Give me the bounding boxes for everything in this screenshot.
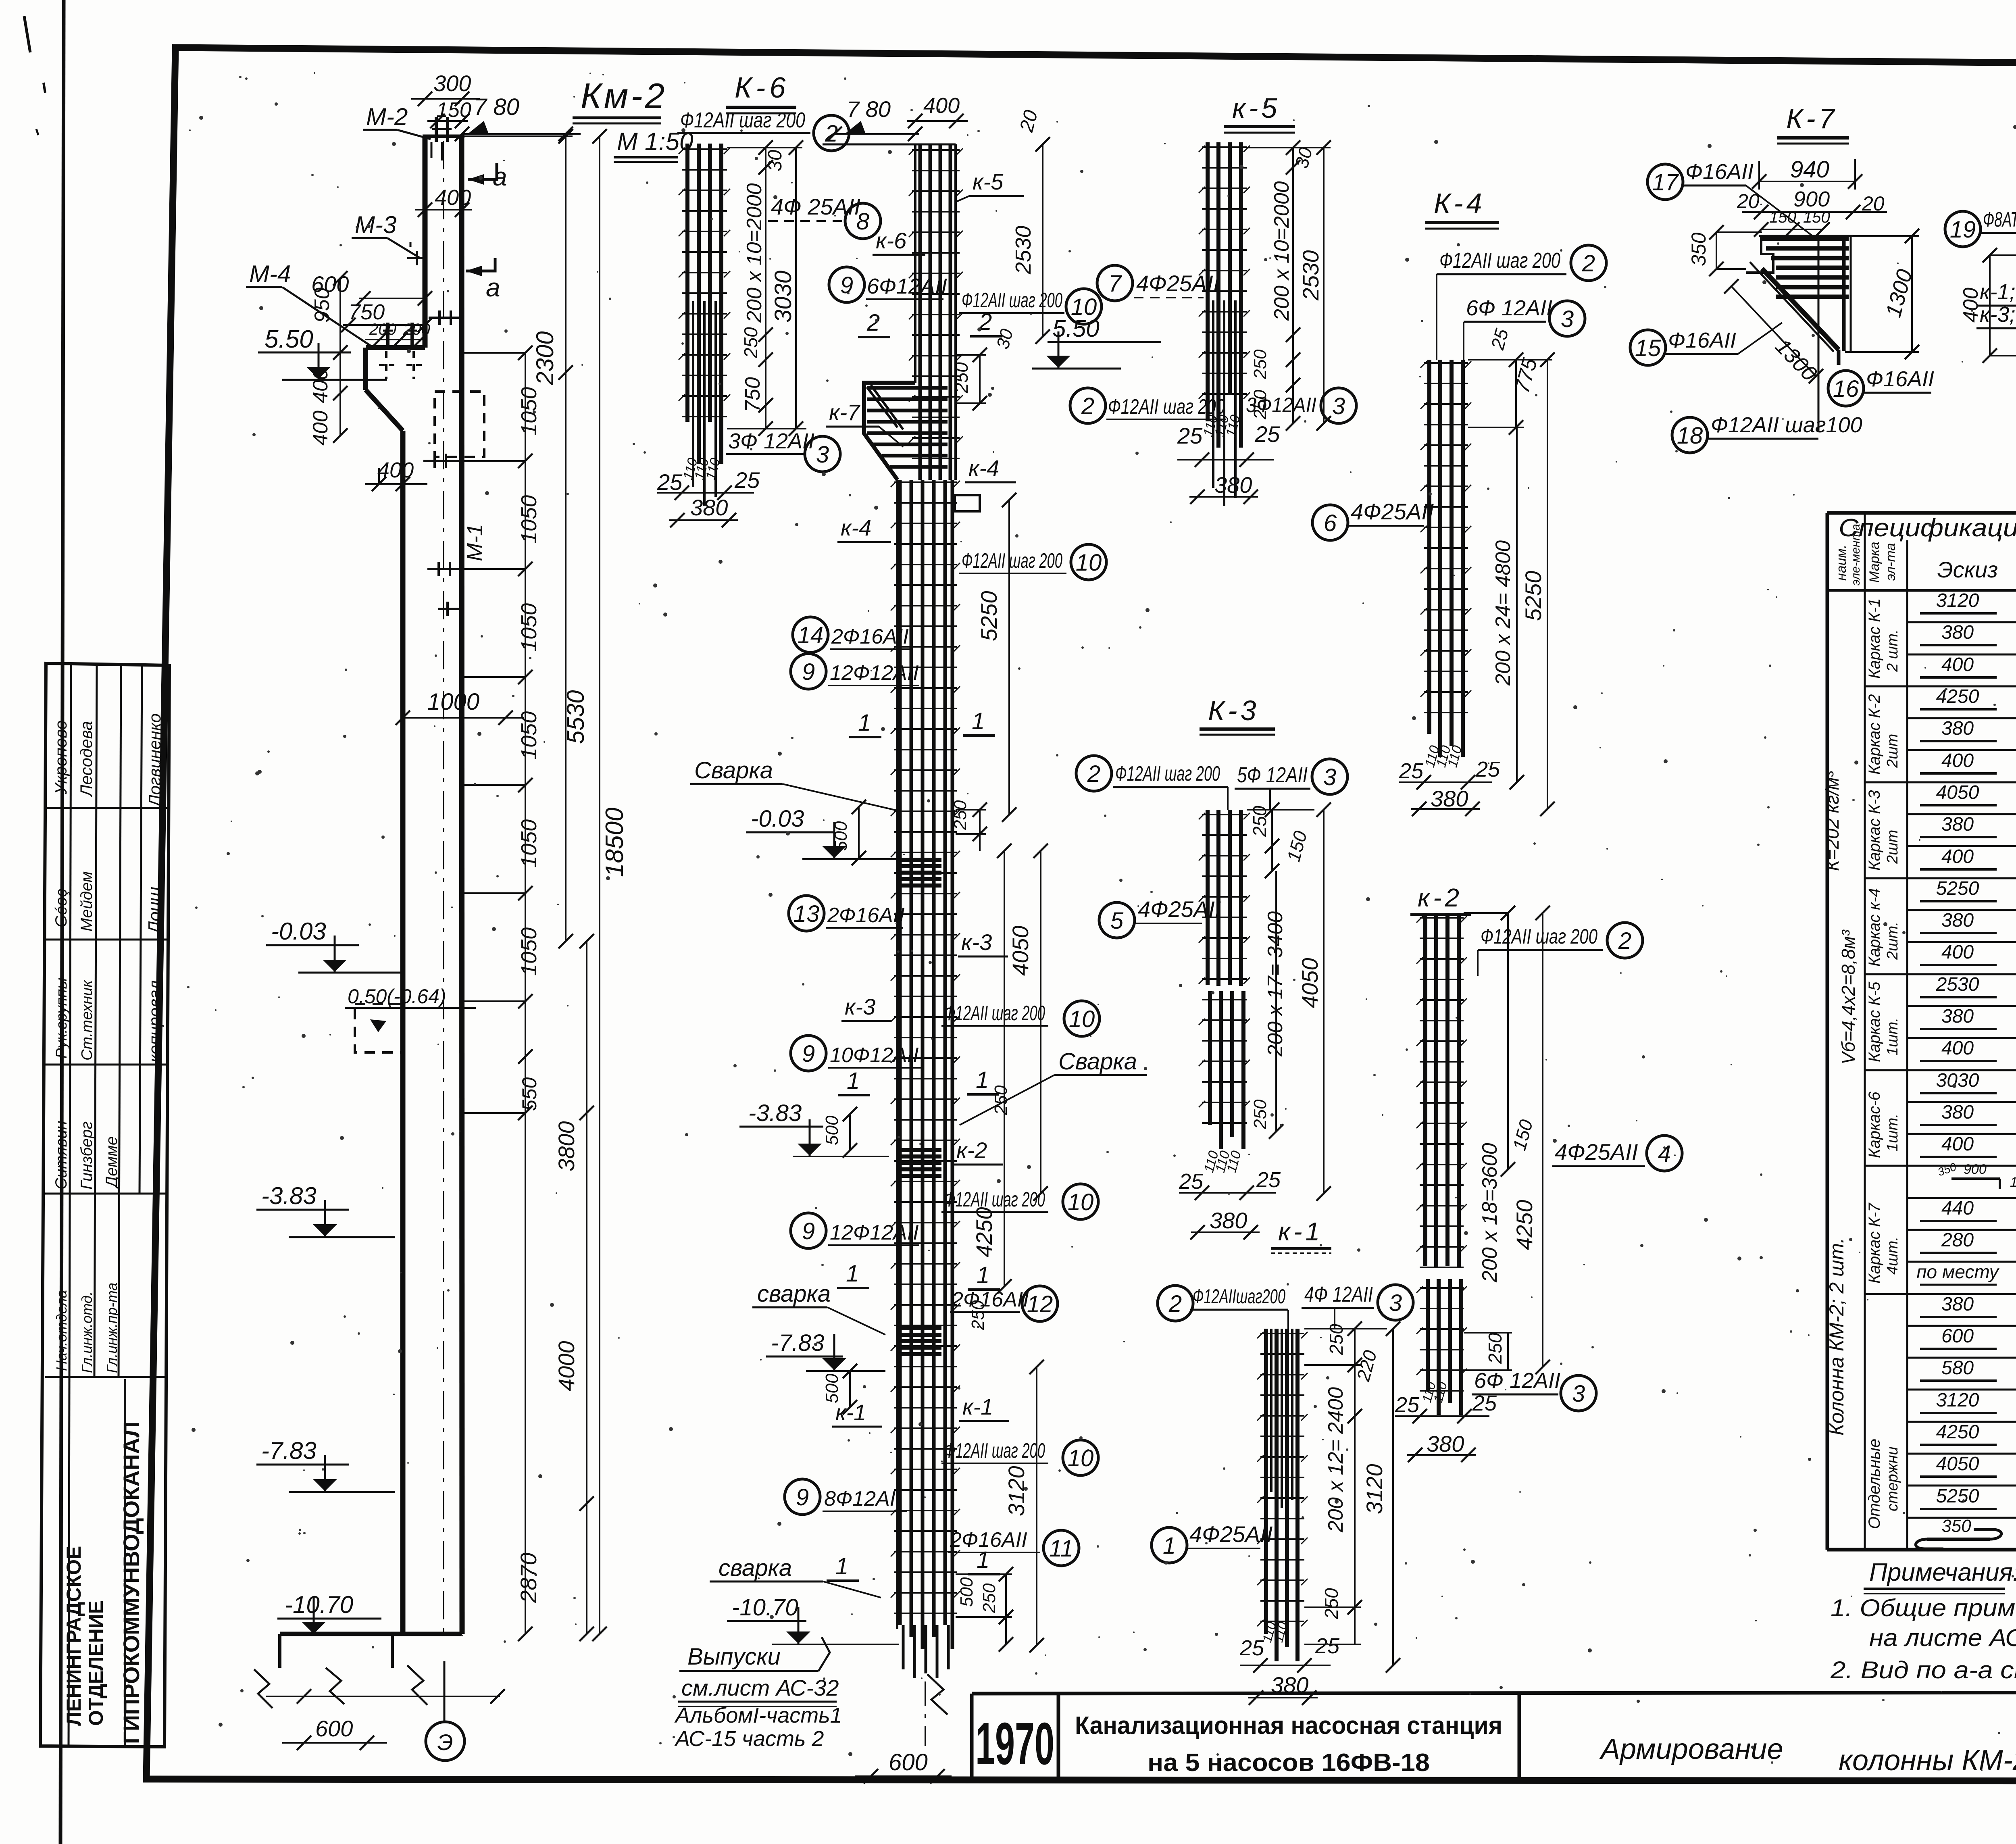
specification table bbox=[1827, 511, 2016, 515]
circle marker 8 bbox=[845, 203, 881, 239]
svg-text:25: 25 bbox=[734, 467, 760, 493]
svg-text:сварка: сварка bbox=[757, 1281, 831, 1307]
svg-text:см.лист АС-32: см.лист АС-32 bbox=[681, 1675, 839, 1700]
dimension chain 3800/4000/2870 bbox=[586, 941, 587, 1634]
svg-text:200: 200 bbox=[369, 321, 396, 338]
svg-text:Ф12АIIшаг200: Ф12АIIшаг200 bbox=[1193, 1285, 1285, 1308]
svg-text:к-6: к-6 bbox=[876, 228, 907, 253]
svg-text:380: 380 bbox=[1941, 1294, 1974, 1315]
corbel K-7 top edge bbox=[1759, 235, 1853, 237]
column lower segment bars bbox=[898, 480, 902, 1625]
column KM-2 left edge below ledge bbox=[363, 348, 368, 390]
column bottom break mark bbox=[927, 1674, 948, 1715]
svg-text:Ф12АII шаг 200: Ф12АII шаг 200 bbox=[680, 108, 805, 132]
svg-text:350: 350 bbox=[1687, 232, 1710, 266]
splice dims 500 250 second bbox=[849, 1114, 851, 1150]
svg-text:-0.03: -0.03 bbox=[271, 918, 326, 945]
svg-text:1970: 1970 bbox=[975, 1711, 1054, 1777]
svg-text:-10.70: -10.70 bbox=[732, 1594, 798, 1621]
svg-text:380: 380 bbox=[1431, 786, 1468, 811]
svg-text:7: 7 bbox=[1108, 271, 1123, 297]
dim 600 at base bbox=[282, 1742, 387, 1744]
svg-text:1шт.: 1шт. bbox=[1884, 1018, 1901, 1056]
svg-text:400: 400 bbox=[377, 458, 414, 482]
svg-text:АС-15 часть 2: АС-15 часть 2 bbox=[674, 1727, 824, 1751]
svg-text:580: 580 bbox=[1941, 1357, 1974, 1379]
svg-text:25: 25 bbox=[1177, 423, 1203, 448]
svg-text:400: 400 bbox=[923, 94, 960, 118]
svg-text:3120: 3120 bbox=[1362, 1464, 1387, 1514]
dim 4250 right bbox=[1004, 851, 1005, 1286]
cage K-4 dim 200x24 and 5250 bbox=[1516, 427, 1518, 782]
circle 9 12F12AII bbox=[791, 654, 826, 689]
svg-text:К-4: К-4 bbox=[1434, 188, 1485, 219]
svg-text:Марка: Марка bbox=[1867, 542, 1882, 583]
svg-text:500: 500 bbox=[957, 1577, 977, 1607]
svg-text:Ф12АII шаг 200: Ф12АII шаг 200 bbox=[1439, 248, 1560, 273]
svg-text:3: 3 bbox=[1572, 1381, 1585, 1407]
svg-text:колонны КМ-2: колонны КМ-2 bbox=[1839, 1744, 2016, 1777]
table row rules bbox=[1907, 621, 2016, 623]
svg-text:2шт.: 2шт. bbox=[1884, 922, 1901, 960]
cage K-3 dim 200x17 and 4050 bbox=[1275, 871, 1277, 1131]
label F8AT step 200 circle 19 bbox=[1945, 211, 1981, 247]
svg-text:5530: 5530 bbox=[562, 690, 589, 744]
dimension chain 18500 overall bbox=[599, 136, 600, 1634]
cage K-1 dim 200x12 and 3120 bbox=[1354, 1416, 1356, 1607]
svg-text:к-4: к-4 bbox=[968, 455, 999, 481]
svg-text:17: 17 bbox=[1652, 169, 1679, 196]
svg-text:a: a bbox=[493, 162, 507, 191]
dim 940 bbox=[1759, 181, 1855, 182]
section mark a-a upper bbox=[468, 163, 497, 179]
circle marker 9 and 6F12AII bbox=[829, 267, 864, 302]
column axis line bbox=[443, 141, 444, 1633]
svg-text:ОТДЕЛЕНИЕ: ОТДЕЛЕНИЕ bbox=[85, 1600, 107, 1726]
cage K-1 hoop label circle 2 bbox=[1158, 1286, 1193, 1321]
svg-text:1: 1 bbox=[846, 1261, 859, 1287]
svg-text:Ф12АII шаг 200: Ф12АII шаг 200 bbox=[1481, 925, 1597, 948]
svg-text:7 80: 7 80 bbox=[474, 94, 519, 120]
cage K-6 ties bbox=[682, 148, 727, 150]
svg-text:2шт: 2шт bbox=[1884, 734, 1901, 768]
svg-text:250: 250 bbox=[1485, 1333, 1506, 1364]
cage K-1 bars bbox=[1264, 1329, 1268, 1634]
svg-text:200 х 18=3600: 200 х 18=3600 bbox=[1478, 1143, 1502, 1283]
circle 17 F16AII bbox=[1647, 164, 1683, 200]
svg-text:6Ф 12АII: 6Ф 12АII bbox=[1466, 296, 1552, 320]
svg-text:3: 3 bbox=[1561, 306, 1574, 332]
svg-text:1: 1 bbox=[835, 1553, 848, 1579]
circle 15 F16AII bbox=[1630, 330, 1666, 365]
svg-text:10: 10 bbox=[1071, 294, 1097, 320]
circle 1 4F25AII bbox=[1152, 1527, 1187, 1563]
svg-text:Géoç: Géoç bbox=[52, 889, 70, 927]
svg-text:1: 1 bbox=[847, 1068, 860, 1094]
svg-text:2Ф16АII: 2Ф16АII bbox=[831, 625, 909, 648]
svg-text:1: 1 bbox=[977, 1262, 989, 1288]
svg-text:25: 25 bbox=[1399, 759, 1424, 783]
svg-text:150: 150 bbox=[436, 98, 471, 122]
svg-text:4050: 4050 bbox=[1297, 958, 1322, 1008]
svg-text:400: 400 bbox=[309, 368, 332, 403]
svg-text:400: 400 bbox=[1941, 942, 1974, 963]
cage K-1 splice bars bbox=[1270, 1329, 1272, 1492]
svg-text:К-3: К-3 bbox=[1208, 695, 1260, 726]
svg-text:250: 250 bbox=[1250, 1099, 1270, 1129]
svg-text:2530: 2530 bbox=[1298, 250, 1323, 301]
svg-text:250: 250 bbox=[1250, 349, 1270, 379]
svg-text:1: 1 bbox=[1163, 1533, 1176, 1559]
svg-text:Vб=4,4х2=8,8м³: Vб=4,4х2=8,8м³ bbox=[1838, 929, 1859, 1065]
svg-text:380: 380 bbox=[1941, 622, 1974, 643]
cage K-5 dim chain inner bbox=[1292, 148, 1294, 423]
svg-text:2шт: 2шт bbox=[1884, 830, 1901, 864]
svg-text:400: 400 bbox=[1941, 846, 1974, 867]
svg-text:15: 15 bbox=[1635, 335, 1661, 361]
svg-text:400: 400 bbox=[309, 410, 332, 446]
svg-text:М-3: М-3 bbox=[355, 211, 396, 238]
column bottom released bars bbox=[902, 1625, 905, 1669]
svg-text:Каркас К-1: Каркас К-1 bbox=[1866, 598, 1883, 679]
cage K-3 bars lower bbox=[1208, 991, 1212, 1125]
svg-text:4050: 4050 bbox=[1008, 925, 1033, 976]
cage K-3 bars upper bbox=[1206, 810, 1210, 985]
cage K-4 bars bbox=[1427, 360, 1431, 734]
svg-text:1050: 1050 bbox=[517, 603, 541, 652]
dim 4050 right bbox=[1040, 851, 1041, 1194]
svg-text:200 х 12= 2400: 200 х 12= 2400 bbox=[1324, 1387, 1347, 1533]
svg-text:500: 500 bbox=[822, 1115, 842, 1145]
svg-text:440: 440 bbox=[1941, 1198, 1974, 1219]
svg-text:6: 6 bbox=[1324, 510, 1337, 536]
svg-text:ЛЕНИНГРАДСКОЕ: ЛЕНИНГРАДСКОЕ bbox=[62, 1546, 85, 1726]
corbel K-7 left steps bbox=[1746, 236, 1773, 273]
svg-text:25: 25 bbox=[1475, 757, 1500, 781]
svg-text:3120: 3120 bbox=[1936, 590, 1979, 611]
column KM-2 right edge bbox=[462, 136, 462, 1634]
svg-text:М-2: М-2 bbox=[366, 103, 408, 130]
svg-text:3: 3 bbox=[816, 442, 829, 468]
svg-text:к-1; к-2: к-1; к-2 bbox=[1980, 280, 2016, 304]
svg-text:М-4: М-4 bbox=[249, 260, 291, 288]
svg-text:280: 280 bbox=[1941, 1229, 1974, 1251]
dim 780 top right bbox=[462, 133, 581, 135]
svg-text:13: 13 bbox=[793, 901, 820, 927]
svg-text:18: 18 bbox=[1677, 423, 1703, 449]
splice hook cluster 1 bbox=[900, 858, 941, 862]
svg-text:Выпуски: Выпуски bbox=[687, 1644, 781, 1670]
svg-text:5250: 5250 bbox=[1936, 1486, 1979, 1507]
cage K-1 dims right bbox=[1354, 1329, 1356, 1416]
svg-text:наим.: наим. bbox=[1834, 545, 1849, 581]
svg-text:к-5: к-5 bbox=[1232, 92, 1280, 124]
svg-text:4Ф25АII: 4Ф25АII bbox=[1136, 271, 1219, 296]
svg-text:8Ф12АII: 8Ф12АII bbox=[824, 1487, 902, 1511]
svg-text:Лесодева: Лесодева bbox=[77, 721, 96, 798]
svg-text:1050: 1050 bbox=[517, 711, 541, 760]
svg-text:400: 400 bbox=[1941, 1038, 1974, 1059]
svg-text:1: 1 bbox=[976, 1067, 989, 1093]
corbel diagonal bars bbox=[867, 387, 898, 427]
svg-text:400: 400 bbox=[1941, 1133, 1974, 1155]
svg-text:25: 25 bbox=[1472, 1391, 1497, 1415]
dim 1300 vertical right bbox=[1911, 236, 1913, 352]
cage K-3 ties bbox=[1202, 814, 1247, 815]
circle 16 F16AII bbox=[1828, 371, 1864, 406]
svg-text:600: 600 bbox=[1941, 1325, 1974, 1347]
svg-text:Ф12АII шаг 200: Ф12АII шаг 200 bbox=[1115, 762, 1220, 786]
svg-text:250: 250 bbox=[1321, 1588, 1342, 1619]
svg-text:25: 25 bbox=[1395, 1393, 1420, 1417]
svg-text:к-1: к-1 bbox=[1278, 1217, 1323, 1246]
svg-text:на 5 насосов 16ФВ-18: на 5 насосов 16ФВ-18 bbox=[1148, 1749, 1430, 1777]
svg-text:2530: 2530 bbox=[1936, 974, 1979, 995]
svg-text:16: 16 bbox=[1833, 376, 1859, 402]
svg-text:к-3; к-4: к-3; к-4 bbox=[1980, 302, 2016, 327]
svg-text:940: 940 bbox=[1790, 156, 1829, 183]
svg-text:Ф16АII: Ф16АII bbox=[1668, 328, 1736, 352]
svg-text:380: 380 bbox=[1941, 910, 1974, 931]
cage K-2 bars upper bbox=[1423, 913, 1427, 1266]
svg-text:Сварка: Сварка bbox=[694, 757, 773, 783]
svg-text:3: 3 bbox=[1323, 764, 1336, 790]
svg-text:Ф12АII шаг 200: Ф12АII шаг 200 bbox=[962, 289, 1062, 312]
ledge at level 5.50 bbox=[366, 345, 425, 350]
svg-text:5250: 5250 bbox=[1520, 571, 1546, 621]
svg-text:550: 550 bbox=[518, 1077, 541, 1111]
svg-text:-10.70: -10.70 bbox=[285, 1591, 353, 1618]
cage K-5 bars bbox=[1206, 142, 1210, 421]
svg-text:к-2: к-2 bbox=[1418, 883, 1462, 912]
svg-text:Каркас к-4: Каркас к-4 bbox=[1866, 888, 1883, 967]
svg-text:4250: 4250 bbox=[1936, 686, 1979, 707]
svg-text:4шт.: 4шт. bbox=[1884, 1237, 1901, 1275]
svg-text:14: 14 bbox=[798, 622, 824, 648]
svg-text:200 х 17= 3400: 200 х 17= 3400 bbox=[1264, 911, 1287, 1057]
svg-text:ГИПРОКОММУНВОДОКАНАЛ: ГИПРОКОММУНВОДОКАНАЛ bbox=[119, 1421, 144, 1744]
svg-text:10: 10 bbox=[1068, 1445, 1094, 1471]
svg-text:1: 1 bbox=[858, 710, 871, 736]
svg-text:500: 500 bbox=[831, 821, 851, 851]
svg-text:Ф16АII: Ф16АII bbox=[1685, 160, 1754, 184]
svg-text:9: 9 bbox=[796, 1484, 809, 1511]
svg-text:Ф12АII шаг 200: Ф12АII шаг 200 bbox=[944, 1002, 1045, 1025]
svg-text:Каркас-6: Каркас-6 bbox=[1866, 1091, 1883, 1158]
svg-text:к-4: к-4 bbox=[841, 515, 871, 540]
dim 600 bottom of rebar column bbox=[855, 1775, 952, 1777]
svg-text:стержни: стержни bbox=[1884, 1446, 1901, 1511]
cage K-2 top dim line bbox=[1464, 912, 1508, 914]
svg-text:11: 11 bbox=[1049, 1536, 1073, 1562]
svg-text:Укропово: Укропово bbox=[51, 720, 70, 795]
diagonal dim 1300 bbox=[1731, 286, 1816, 376]
table header underline bbox=[1827, 589, 2016, 592]
svg-text:300: 300 bbox=[433, 71, 471, 96]
svg-text:350: 350 bbox=[1941, 1516, 1971, 1536]
svg-text:1: 1 bbox=[977, 1547, 989, 1573]
svg-text:копировал: копировал bbox=[145, 980, 164, 1063]
svg-text:4Ф25АII: 4Ф25АII bbox=[1351, 499, 1434, 524]
svg-text:400: 400 bbox=[1941, 654, 1974, 675]
svg-text:25: 25 bbox=[1254, 421, 1280, 447]
circle marker 3 bbox=[805, 436, 840, 472]
column KM-2 sloped face bbox=[366, 390, 403, 431]
horizontal ties from column to chain bbox=[462, 352, 525, 354]
svg-text:М-1: М-1 bbox=[463, 524, 487, 561]
svg-text:4250: 4250 bbox=[971, 1207, 997, 1257]
svg-text:эле-мента: эле-мента bbox=[1849, 524, 1862, 585]
circle marker 2 bbox=[814, 115, 849, 151]
dim 300 at top bbox=[411, 98, 480, 100]
svg-text:5Ф 12АII: 5Ф 12АII bbox=[1237, 763, 1308, 787]
svg-text:4Ф25АII: 4Ф25АII bbox=[1189, 1521, 1272, 1547]
cage K-6 splice bars bbox=[692, 301, 694, 487]
svg-text:10Ф12АII: 10Ф12АII bbox=[830, 1044, 919, 1067]
svg-text:АльбомI-часть1: АльбомI-часть1 bbox=[674, 1703, 842, 1727]
svg-text:3800: 3800 bbox=[554, 1121, 579, 1171]
embed M-3 symbol bbox=[407, 257, 427, 259]
svg-text:на листе АС-4: на листе АС-4 bbox=[1869, 1624, 2016, 1651]
svg-text:3Ф12АII: 3Ф12АII bbox=[1246, 394, 1316, 417]
svg-text:4Ф25АII: 4Ф25АII bbox=[1555, 1139, 1638, 1165]
svg-text:Ф12АII шаг 200: Ф12АII шаг 200 bbox=[944, 1439, 1045, 1463]
svg-text:Мейдем: Мейдем bbox=[78, 871, 96, 931]
svg-text:9: 9 bbox=[802, 1218, 815, 1244]
svg-text:Примечания:: Примечания: bbox=[1869, 1559, 2016, 1586]
svg-text:2Ф16АII: 2Ф16АII bbox=[827, 904, 905, 927]
svg-text:4000: 4000 bbox=[554, 1341, 579, 1391]
svg-text:по месту: по месту bbox=[1916, 1261, 2000, 1282]
svg-text:1шт.: 1шт. bbox=[1884, 1114, 1901, 1152]
svg-text:500: 500 bbox=[822, 1373, 842, 1403]
svg-text:2Ф16АII: 2Ф16АII bbox=[951, 1288, 1029, 1311]
svg-text:Ф12АII шаг100: Ф12АII шаг100 bbox=[1711, 413, 1862, 437]
svg-text:4050: 4050 bbox=[1936, 1453, 1979, 1475]
svg-text:к-1: к-1 bbox=[962, 1394, 993, 1419]
svg-text:к-5: к-5 bbox=[973, 169, 1004, 194]
svg-text:150: 150 bbox=[1803, 208, 1830, 226]
splice hook cluster 3 bbox=[900, 1326, 941, 1330]
svg-text:900: 900 bbox=[1793, 187, 1830, 211]
bracket anchor bolts on ledge bbox=[386, 323, 389, 346]
svg-text:К-7: К-7 bbox=[1786, 103, 1838, 134]
circle 6 4F25AII bbox=[1312, 505, 1348, 540]
svg-text:к-3: к-3 bbox=[845, 994, 875, 1019]
cage K-2 ties bbox=[1420, 917, 1464, 919]
svg-text:Гинзберг: Гинзберг bbox=[78, 1121, 96, 1190]
svg-text:10: 10 bbox=[1068, 1189, 1094, 1215]
svg-text:Рук.группы: Рук.группы bbox=[53, 978, 70, 1058]
svg-text:эл-та: эл-та bbox=[1883, 543, 1898, 581]
svg-text:7 80: 7 80 bbox=[847, 96, 891, 122]
hidden outline dashed rect bbox=[435, 392, 484, 457]
svg-text:950: 950 bbox=[310, 288, 334, 323]
svg-text:380: 380 bbox=[690, 495, 728, 520]
svg-text:2: 2 bbox=[1618, 928, 1631, 954]
svg-text:Каркас К-2: Каркас К-2 bbox=[1866, 694, 1883, 775]
svg-text:Ф16АII: Ф16АII bbox=[1866, 367, 1934, 391]
dim 400 top bbox=[907, 120, 968, 122]
dim 780 top bbox=[835, 133, 919, 135]
dim 5250 right of column bbox=[1008, 500, 1010, 815]
svg-text:250: 250 bbox=[740, 327, 761, 358]
svg-text:200: 200 bbox=[403, 321, 430, 338]
lower ties bbox=[894, 481, 957, 483]
svg-text:3120: 3120 bbox=[1004, 1466, 1029, 1516]
svg-text:2: 2 bbox=[866, 310, 880, 336]
axis bubble Э bbox=[444, 1661, 446, 1722]
svg-text:380: 380 bbox=[1941, 814, 1974, 835]
svg-text:3120: 3120 bbox=[1936, 1390, 1979, 1411]
corbel K-7 stirrup line bbox=[1818, 236, 1820, 431]
svg-text:Сварка: Сварка bbox=[1058, 1048, 1137, 1075]
svg-text:250: 250 bbox=[979, 1583, 999, 1613]
anchor bolts at column top bbox=[435, 117, 438, 142]
svg-text:12Ф12АII: 12Ф12АII bbox=[830, 1221, 919, 1244]
splice dims 500 250 bbox=[858, 807, 860, 858]
svg-text:2: 2 bbox=[1582, 250, 1595, 277]
column base footing bbox=[280, 1632, 462, 1636]
svg-text:5.50: 5.50 bbox=[264, 325, 313, 353]
embed plate symbol at 1143 bbox=[423, 460, 460, 462]
column bottom axis bbox=[925, 1637, 926, 1746]
svg-text:-3.83: -3.83 bbox=[748, 1100, 802, 1126]
svg-text:12: 12 bbox=[1027, 1291, 1053, 1317]
column KM-2 left edge upper shaft bbox=[423, 136, 428, 348]
dim 950 rotated bbox=[339, 278, 341, 352]
svg-text:3030: 3030 bbox=[1936, 1070, 1979, 1091]
svg-text:Гл.инж.отд.: Гл.инж.отд. bbox=[79, 1292, 95, 1373]
svg-text:4250: 4250 bbox=[1512, 1200, 1537, 1250]
svg-text:1050: 1050 bbox=[517, 495, 541, 544]
svg-text:сварка: сварка bbox=[719, 1555, 792, 1581]
dim 750 bbox=[343, 324, 427, 326]
circle 13 2F16AII bbox=[789, 896, 824, 931]
svg-text:400: 400 bbox=[1959, 288, 1983, 323]
embed plate right of column bbox=[955, 495, 980, 511]
dims 20 900 20 bbox=[1742, 211, 1887, 213]
cage K-5 ties bbox=[1202, 146, 1247, 148]
svg-text:к-3: к-3 bbox=[961, 929, 992, 955]
svg-text:9: 9 bbox=[802, 659, 815, 685]
svg-text:900: 900 bbox=[1964, 1162, 1987, 1177]
circle 9 8F12AII bbox=[785, 1479, 820, 1515]
svg-text:2: 2 bbox=[1168, 1291, 1182, 1317]
cage K-6 dim chain inner bbox=[765, 148, 766, 429]
svg-text:4Ф 12АII: 4Ф 12АII bbox=[1304, 1282, 1373, 1306]
svg-text:Армирование: Армирование bbox=[1599, 1733, 1783, 1765]
svg-text:-0.03: -0.03 bbox=[751, 806, 804, 832]
svg-text:Гл.инж.пр-та: Гл.инж.пр-та bbox=[104, 1283, 120, 1373]
svg-text:600: 600 bbox=[315, 1716, 353, 1741]
svg-text:К-6: К-6 bbox=[735, 72, 789, 104]
svg-text:1050: 1050 bbox=[517, 387, 541, 435]
svg-text:Ситявин: Ситявин bbox=[52, 1121, 70, 1190]
column KM-2 rebar elevation top segment bars bbox=[918, 144, 922, 480]
svg-text:200 х 24= 4800: 200 х 24= 4800 bbox=[1491, 540, 1515, 686]
corbel K-7 diagonal band bbox=[1762, 269, 1839, 350]
svg-text:3: 3 bbox=[1389, 1290, 1402, 1316]
svg-text:200 х 10=2000: 200 х 10=2000 bbox=[743, 183, 766, 323]
svg-text:10: 10 bbox=[1076, 550, 1102, 576]
top ties bbox=[912, 149, 960, 151]
svg-text:1. Общие примечания к ко: 1. Общие примечания к колоннам смотреть bbox=[1831, 1594, 2016, 1621]
corbel dims 250 30 bbox=[979, 355, 981, 403]
table vertical rules bbox=[1864, 513, 1866, 1550]
cage K-6 dim chain 3030 bbox=[795, 148, 797, 429]
svg-text:Ф8АТ шаг 200: Ф8АТ шаг 200 bbox=[1983, 208, 2016, 231]
